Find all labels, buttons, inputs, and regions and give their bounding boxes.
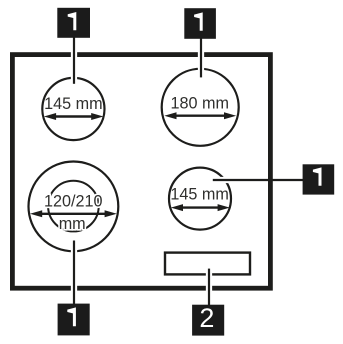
numeral 1 top-left — [68, 12, 77, 30]
dimension arrow bottom-left — [30, 210, 117, 217]
burner circle bottom-left outer 210mm — [29, 162, 119, 252]
burner circle bottom-left inner 120mm — [48, 181, 99, 232]
dimension arrow top-left — [44, 113, 104, 120]
leader line 1 right — [213, 179, 304, 181]
leader line 2 — [208, 269, 210, 306]
leader casing 2 — [206, 269, 212, 304]
svg-text:mm: mm — [59, 215, 86, 233]
leader line 1 top-left — [73, 36, 75, 84]
callout box 1 right — [303, 164, 335, 194]
leader casing 1 top-right — [198, 38, 204, 77]
svg-text:2: 2 — [199, 303, 214, 333]
numeral 1 top-right — [194, 12, 203, 30]
numeral 1 right — [313, 167, 322, 185]
callout box 1 top-left — [57, 8, 90, 38]
dimension arrow top-right — [164, 112, 236, 119]
control panel rectangle — [165, 253, 250, 275]
callout box 1 top-right — [184, 8, 216, 39]
cooktop outline (square frame) — [12, 55, 270, 289]
callout box 2 — [192, 305, 224, 336]
leader casing 1 bottom — [71, 241, 77, 304]
numeral 1 bottom — [67, 307, 76, 326]
svg-text:120/210: 120/210 — [44, 192, 103, 210]
leader line 1 top-right — [200, 37, 202, 77]
callout box 1 bottom — [58, 304, 90, 336]
svg-text:145 mm: 145 mm — [170, 185, 228, 203]
leader line 1 bottom — [73, 241, 75, 305]
leader casing 1 right — [213, 177, 256, 183]
svg-text:180 mm: 180 mm — [171, 95, 229, 113]
burner circle bottom-right 145mm — [169, 168, 231, 230]
svg-text:145 mm: 145 mm — [44, 95, 102, 113]
burner circle top-left 145mm — [42, 78, 104, 140]
burner circle top-right 180mm — [162, 69, 239, 146]
leader casing 1 top-left — [71, 37, 77, 84]
dimension arrow bottom-right — [171, 204, 230, 211]
